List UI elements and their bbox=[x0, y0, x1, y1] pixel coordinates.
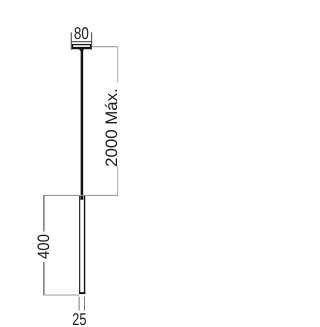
25 extension line left bbox=[78, 297, 80, 311]
svg-text:400: 400 bbox=[35, 234, 53, 259]
svg-text:2000 Máx.: 2000 Máx. bbox=[103, 88, 121, 166]
2000 dim vertical line top segment bbox=[117, 46, 119, 82]
canopy bar thick bottom edge bbox=[72, 47, 91, 49]
svg-text:25: 25 bbox=[72, 310, 86, 327]
canopy top edge bbox=[71, 41, 92, 43]
cable tail into tube bbox=[81, 196, 84, 200]
horizontal extension line at tube top bbox=[43, 194, 118, 196]
tube right edge bbox=[84, 196, 86, 294]
cable stub trapezoid under canopy bbox=[79, 49, 84, 51]
2000 dim vertical line bottom segment bbox=[117, 166, 119, 196]
top extension line to 2000 dim bbox=[92, 46, 118, 48]
extension line left of 80 / canopy left edge bbox=[70, 32, 72, 49]
400 dim vertical line top segment bbox=[43, 195, 45, 231]
400 dim bottom extension line bbox=[43, 294, 79, 296]
extension line right of 80 / canopy right edge bbox=[91, 32, 93, 49]
svg-text:80: 80 bbox=[74, 24, 89, 43]
canopy plate bar bbox=[73, 45, 91, 49]
tube bottom cap bbox=[79, 292, 85, 294]
tube left edge bbox=[79, 196, 81, 294]
suspension cable bbox=[81, 50, 84, 199]
25 extension line right bbox=[84, 297, 86, 311]
400 dim vertical line bottom segment bbox=[43, 262, 45, 295]
